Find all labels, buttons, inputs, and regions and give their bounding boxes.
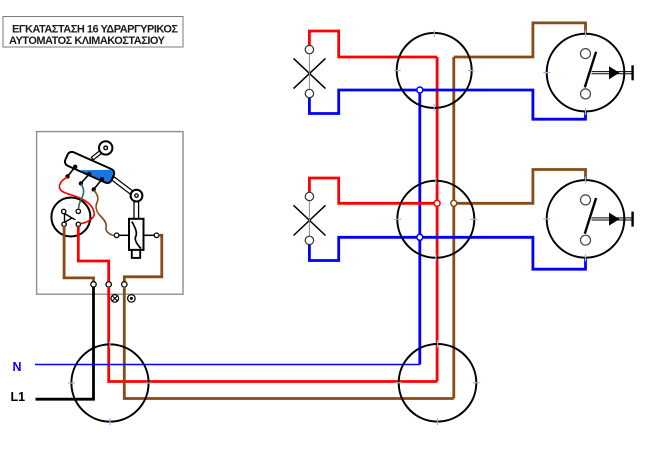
symbol wire-out: [128, 295, 136, 303]
plunger tail: [132, 250, 140, 258]
junction dot blue row2: [417, 234, 423, 240]
junction dot blue row1: [417, 87, 423, 93]
junction box JB4 (bottom left): [68, 341, 152, 425]
svg-text:ΕΓΚΑΤΑΣΤΑΣΗ 16 ΥΔΡΑΡΓΥΡΙΚΟΣ: ΕΓΚΑΤΑΣΤΑΣΗ 16 ΥΔΡΑΡΓΥΡΙΚΟΣ: [12, 24, 178, 36]
wire red motor to terminal T2: [78, 226, 108, 282]
solenoid terminal left: [114, 233, 129, 238]
lower pivot: [131, 190, 143, 202]
junction box JB1: [394, 30, 475, 111]
junction dot brown row2: [451, 200, 457, 206]
wire red pin1 to motor: [59, 177, 94, 224]
lamp E2: [294, 192, 326, 244]
svg-text:L1: L1: [11, 390, 26, 404]
mercury: [80, 170, 115, 184]
wire red bottom run: [109, 287, 437, 382]
terminal T3: [122, 282, 127, 287]
wire brown riser: [452, 57, 455, 399]
terminal T2: [106, 282, 111, 287]
tube contact pin 1: [65, 165, 77, 179]
wire brown row1 to button S1: [454, 23, 586, 57]
lamp E1: [294, 45, 326, 97]
wire brown bottom run: [124, 287, 454, 399]
svg-text:ΑΥΤΟΜΑΤΟΣ ΚΛΙΜΑΚΟΣΤΑΣΙΟΥ: ΑΥΤΟΜΑΤΟΣ ΚΛΙΜΑΚΟΣΤΑΣΙΟΥ: [9, 35, 166, 47]
top pivot arm: [91, 151, 101, 160]
push button S2: [543, 177, 632, 262]
wire brown motor to terminal T1: [64, 226, 93, 282]
motor M1: [51, 198, 90, 237]
wire brown pin3 to solenoid: [94, 190, 114, 236]
mercury tube: [63, 150, 115, 184]
device box (staircase timer automat): [37, 132, 183, 295]
solenoid body: [129, 219, 144, 250]
wire blue row2 lamp side: [309, 237, 419, 260]
top pivot: [99, 141, 112, 154]
push button S1: [543, 30, 632, 115]
junction dot red row2: [434, 200, 440, 206]
terminal T1: [91, 282, 96, 287]
wire red riser: [436, 57, 439, 382]
wire brown solenoid to terminal T3: [124, 235, 162, 282]
wire blue N line: [35, 364, 420, 366]
tube contact pin 2: [79, 172, 92, 186]
svg-text:N: N: [13, 360, 22, 374]
tube contact pin 3: [92, 177, 105, 192]
wire teal pin2 to motor: [78, 184, 83, 210]
wire brown row2 to button S2: [454, 170, 586, 204]
wire blue riser: [418, 90, 421, 365]
junction box JB2: [394, 178, 477, 261]
wire blue row1 button side: [420, 90, 586, 119]
lever arm: [112, 177, 133, 194]
junction box JB3 (bottom right): [395, 341, 480, 426]
wire black L1 feed: [36, 287, 94, 399]
symbol wire-in: [111, 295, 119, 303]
wire blue row2 button side: [420, 237, 586, 269]
wire red row2 to lamp E2: [309, 178, 437, 203]
title box: [3, 17, 183, 48]
solenoid terminal right: [144, 233, 159, 238]
plunger rod: [134, 201, 139, 219]
wire red row1 to lamp E1: [309, 31, 437, 57]
wire blue row1 lamp side: [309, 90, 419, 114]
